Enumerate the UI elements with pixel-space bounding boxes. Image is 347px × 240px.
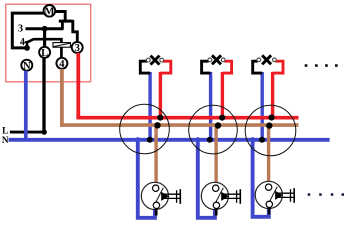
bus bar bbox=[59, 20, 73, 23]
wire brown bus bbox=[60, 123, 298, 127]
terminal L bbox=[39, 47, 50, 59]
node brown group 3 bbox=[266, 122, 272, 128]
junction box circle group 1 bbox=[120, 104, 170, 154]
wire brown lamp drop group 1 bbox=[154, 125, 157, 187]
wire red switch feed group 2 bbox=[221, 72, 224, 118]
socket outlet X2 group 2 bbox=[201, 182, 240, 215]
svg-text:3: 3 bbox=[18, 24, 23, 35]
junction box circle group 3 bbox=[245, 105, 296, 156]
lamp pendant S2 group 2 bbox=[202, 55, 232, 73]
wire M right step bbox=[55, 12, 65, 22]
wire blue lamp loop group 3 bbox=[253, 140, 269, 217]
wire brown lamp drop group 3 bbox=[267, 125, 270, 186]
node brown group 1 bbox=[154, 122, 160, 128]
node junction above N bbox=[24, 45, 30, 51]
node red group 2 bbox=[219, 115, 225, 121]
svg-text:3: 3 bbox=[75, 43, 80, 54]
lamp pendant S3 group 3 bbox=[253, 55, 283, 73]
node on line 3 bbox=[42, 26, 48, 32]
node on L stub bbox=[42, 129, 47, 134]
svg-text:N: N bbox=[2, 135, 9, 145]
label 4 tick bbox=[25, 41, 28, 43]
node blue tap group 1 bbox=[135, 137, 140, 142]
terminal 3 bbox=[72, 42, 83, 54]
wire blue lamp loop group 2 bbox=[198, 140, 215, 218]
node brown group 2 bbox=[215, 122, 221, 128]
socket outlet X1 group 1 bbox=[141, 182, 180, 215]
wire fuse to terminal 4 bbox=[60, 47, 63, 58]
svg-text:4: 4 bbox=[59, 59, 65, 70]
wire line 3 bbox=[26, 27, 64, 30]
wire black below L bbox=[42, 58, 45, 132]
wire bar to line 3 bbox=[61, 20, 64, 29]
fuse F1 bbox=[53, 43, 70, 48]
node red group 1 bbox=[157, 115, 163, 121]
svg-text:4: 4 bbox=[20, 37, 25, 48]
wire brown drop from terminal 4 bbox=[60, 69, 64, 127]
svg-text:L: L bbox=[2, 125, 8, 135]
svg-text:N: N bbox=[23, 61, 31, 72]
wire L stub bbox=[10, 131, 46, 134]
meter M bbox=[44, 5, 56, 18]
wire red switch feed group 1 bbox=[159, 72, 162, 118]
meter box red border bbox=[6, 4, 91, 82]
lamp pendant S1 group 1 bbox=[140, 56, 171, 74]
node blue tap group 3 bbox=[250, 137, 255, 142]
continuation dots top bbox=[305, 64, 338, 67]
terminal 4 bbox=[56, 58, 67, 70]
continuation dots bottom bbox=[308, 193, 344, 196]
wire node to terminal L bbox=[43, 29, 46, 47]
node blue tap group 2 bbox=[195, 137, 200, 142]
wire bar to terminal 3 bbox=[73, 20, 78, 42]
wire red phase drop from terminal 3 bbox=[76, 53, 80, 118]
wire brown lamp drop group 2 bbox=[214, 125, 217, 187]
node blue group 1 bbox=[147, 137, 153, 143]
svg-text:M: M bbox=[44, 7, 54, 18]
wire blue switch drop group 1 bbox=[148, 72, 151, 140]
wire blue neutral bus bbox=[9, 138, 330, 142]
wire red phase bus bbox=[76, 116, 298, 120]
svg-text:L: L bbox=[41, 48, 48, 59]
node red group 3 bbox=[268, 114, 274, 120]
wire blue lamp loop group 1 bbox=[138, 140, 155, 218]
wire blue switch drop group 3 bbox=[261, 72, 264, 140]
node blue group 2 bbox=[207, 137, 213, 143]
wire blue switch drop group 2 bbox=[209, 72, 212, 140]
wire red switch feed group 3 bbox=[271, 72, 274, 118]
node blue group 3 bbox=[259, 137, 265, 143]
terminal N bbox=[21, 60, 32, 72]
wire M left to N junction bbox=[12, 13, 45, 48]
socket outlet X3 group 3 bbox=[255, 181, 294, 214]
junction box circle group 2 bbox=[189, 105, 238, 154]
wire junction to line 4 and fuse bbox=[27, 39, 61, 48]
wire blue below N terminal bbox=[24, 71, 28, 141]
